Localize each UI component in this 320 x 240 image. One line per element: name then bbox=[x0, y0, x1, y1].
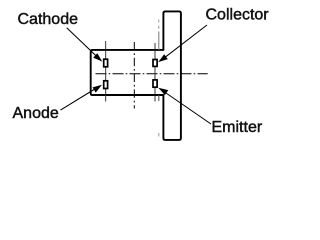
cathode arrowhead bbox=[93, 53, 102, 61]
horizontal centerline bbox=[96, 73, 208, 75]
hidden edge below body bbox=[158, 95, 160, 101]
vertical body centerline bbox=[133, 42, 135, 109]
collector arrowhead bbox=[158, 54, 168, 62]
anode leader line bbox=[61, 90, 95, 111]
package outline (body + heatsink tab) bbox=[91, 11, 181, 140]
hidden edge dash near tab bottom bbox=[158, 133, 160, 137]
emitter arrowhead bbox=[158, 88, 168, 95]
svg-text:Cathode: Cathode bbox=[18, 11, 79, 28]
left pin lead centerline bbox=[105, 41, 107, 102]
anode pin bbox=[104, 81, 108, 89]
hidden edge (solid part) above body bbox=[158, 32, 160, 51]
svg-text:Anode: Anode bbox=[13, 105, 59, 122]
collector leader line bbox=[166, 25, 208, 57]
right pin lead centerline bbox=[154, 43, 156, 102]
cathode leader line bbox=[67, 28, 96, 56]
emitter leader line bbox=[166, 93, 211, 124]
anode arrowhead bbox=[93, 85, 103, 93]
svg-text:Collector: Collector bbox=[206, 7, 270, 24]
collector pin bbox=[153, 60, 157, 67]
svg-text:Emitter: Emitter bbox=[212, 119, 263, 136]
hidden edge (dashed) above body bbox=[158, 20, 160, 30]
emitter pin bbox=[153, 80, 157, 87]
cathode pin bbox=[104, 59, 108, 67]
